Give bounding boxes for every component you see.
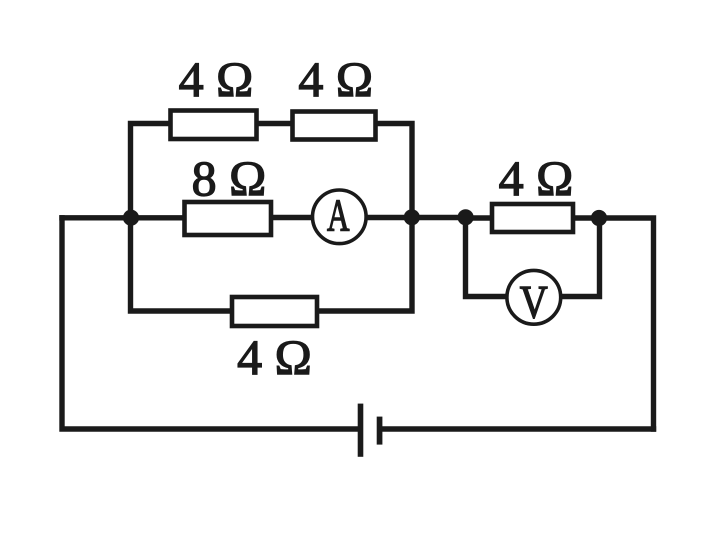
node D junction dot bbox=[591, 210, 607, 226]
svg-text:4 Ω: 4 Ω bbox=[237, 329, 312, 385]
wire voltmeter branch right vertical bbox=[560, 218, 600, 297]
node A junction dot bbox=[123, 210, 139, 226]
resistor R4 4-ohm bottom bbox=[232, 297, 317, 326]
wire inner right vertical node B to bottom branch bbox=[317, 218, 412, 311]
wire top branch right segment bbox=[376, 124, 413, 216]
svg-text:4 Ω: 4 Ω bbox=[499, 150, 574, 206]
battery cell bbox=[358, 404, 383, 457]
ammeter A bbox=[313, 190, 367, 244]
wire battery right to outer right bbox=[383, 426, 654, 431]
wire between top resistors bbox=[257, 121, 293, 126]
wire outer left vertical bbox=[62, 218, 358, 429]
resistor R2 4-ohm top-right bbox=[293, 112, 376, 140]
svg-text:4 Ω: 4 Ω bbox=[179, 51, 254, 107]
wire right resistor to node D bbox=[573, 215, 599, 220]
wire node C to 4-ohm right resistor bbox=[466, 215, 493, 220]
wire middle branch from outer left to 8-ohm resistor bbox=[62, 215, 185, 220]
svg-text:A: A bbox=[327, 190, 350, 241]
wire top branch left segment bbox=[131, 124, 171, 216]
node C junction dot bbox=[458, 209, 474, 225]
resistor R1 4-ohm top-left bbox=[171, 111, 257, 140]
resistor R5 4-ohm right bbox=[492, 204, 573, 232]
svg-text:4 Ω: 4 Ω bbox=[298, 51, 373, 107]
resistor R3 8-ohm middle bbox=[185, 202, 272, 235]
wire voltmeter branch left vertical bbox=[466, 218, 509, 297]
svg-text:8 Ω: 8 Ω bbox=[192, 150, 267, 206]
wire inner left vertical node A to bottom branch bbox=[131, 218, 233, 311]
wire ammeter to node B bbox=[366, 215, 412, 220]
wire node D to outer right corner bbox=[599, 218, 654, 429]
voltmeter V bbox=[507, 270, 561, 328]
wire 8-ohm resistor to ammeter bbox=[271, 215, 313, 220]
wire node B to node C bbox=[412, 215, 466, 220]
node B junction dot bbox=[404, 209, 420, 225]
svg-text:V: V bbox=[520, 276, 548, 328]
